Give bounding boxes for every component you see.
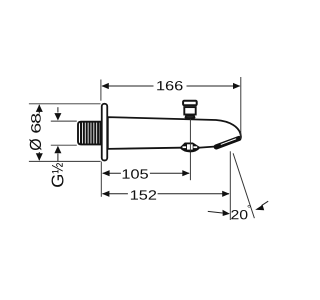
angle 20 vertical reference line [229, 151, 231, 220]
spout body [108, 117, 241, 149]
dimension 152 [102, 190, 230, 199]
angle 20 label [231, 205, 250, 219]
dimension G1/2 [51, 107, 77, 187]
dimension 166 [101, 77, 241, 139]
angle 20 slanted line [233, 153, 254, 218]
angle 20 right arrow [255, 201, 268, 210]
extension line below flange [100, 162, 102, 197]
underside bump (check valve) [180, 143, 199, 152]
angle 20 left arrow [208, 210, 230, 216]
knob/bump centerline (105 extension) [189, 119, 191, 180]
diverter knob [183, 101, 197, 119]
dimension D68 [29, 104, 101, 162]
outlet face band [216, 139, 239, 147]
wall flange escutcheon [102, 104, 108, 161]
dimension 105 [102, 169, 190, 178]
thread nipple G1/2 [78, 122, 100, 145]
